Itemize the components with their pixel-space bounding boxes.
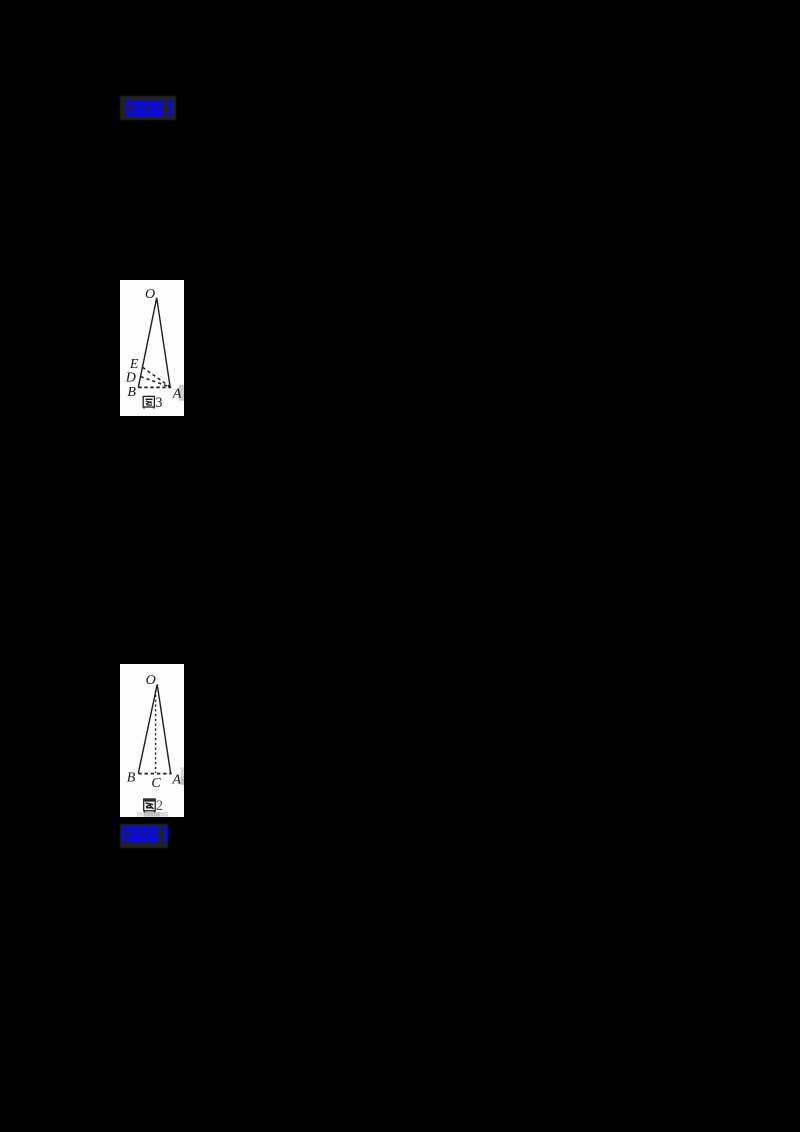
char blob 1 (132, 101, 146, 117)
triangle side OA (157, 297, 171, 387)
svg-text:A: A (172, 386, 182, 401)
gray artifact rect right of A (179, 384, 184, 400)
dashed BA (138, 386, 170, 388)
svg-text:B: B (127, 770, 136, 785)
svg-text:C: C (151, 775, 161, 790)
triangle side OB (138, 297, 156, 387)
caption 图 glyph (dark) (144, 799, 156, 812)
vertex dots (169, 386, 171, 388)
notches in blobs (131, 829, 133, 834)
gray artifact rect right of A (181, 767, 184, 776)
svg-text:B: B (127, 384, 136, 399)
char blob 1 (128, 826, 142, 842)
svg-text:O: O (145, 286, 155, 301)
right bracket (167, 101, 172, 116)
triangle side OA (157, 684, 171, 773)
gray strip below caption (137, 811, 144, 816)
svg-text:A: A (171, 772, 181, 787)
dashed BA (138, 772, 170, 774)
left bracket (122, 826, 127, 841)
dotted altitude OC (155, 690, 157, 773)
right bracket (162, 826, 167, 841)
vertex dot A (170, 772, 172, 774)
dashed EA (143, 367, 171, 386)
figure box 图3 (120, 280, 184, 416)
svg-text:2: 2 (156, 798, 163, 814)
left bracket (126, 101, 131, 116)
figure box 图2 (120, 664, 184, 817)
dashed DA (141, 376, 170, 386)
char blob 2 (147, 101, 163, 117)
char blob 2 (143, 826, 158, 842)
notches in blobs (135, 104, 137, 109)
svg-text:O: O (146, 672, 156, 687)
caption 图 glyph (143, 396, 154, 408)
label tag 2 (blue highlighted 【点评】) (120, 824, 168, 849)
label tag 1 (blue highlighted 【解析】) (120, 96, 176, 120)
svg-text:3: 3 (155, 395, 162, 411)
svg-text:D: D (125, 370, 136, 385)
triangle side OB (138, 684, 157, 773)
